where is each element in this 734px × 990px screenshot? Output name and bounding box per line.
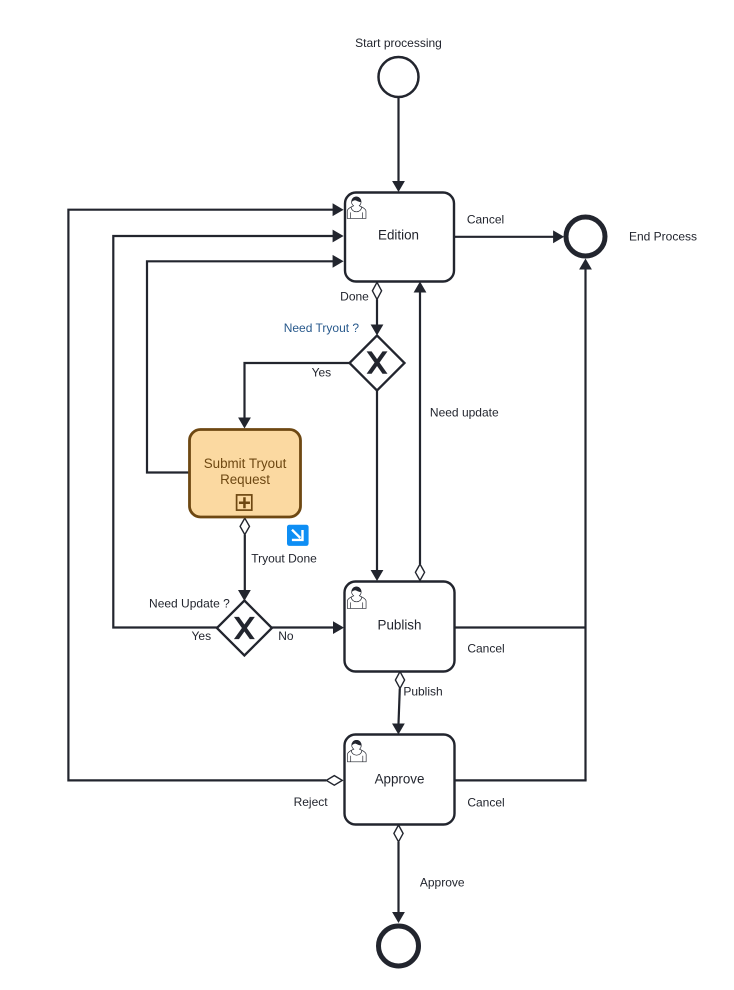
svg-text:Need Update ?: Need Update ? [149,596,230,610]
svg-text:Approve: Approve [375,772,425,787]
svg-text:Reject: Reject [294,795,329,809]
svg-text:Start processing: Start processing [355,36,442,50]
svg-text:Publish: Publish [378,618,422,633]
svg-text:Cancel: Cancel [467,795,504,809]
svg-text:No: No [278,629,294,643]
svg-text:Cancel: Cancel [467,213,504,227]
svg-text:Need Tryout ?: Need Tryout ? [284,321,360,335]
svg-text:Yes: Yes [192,629,212,643]
svg-text:Done: Done [340,289,369,303]
svg-text:Publish: Publish [403,685,442,699]
svg-text:Submit Tryout: Submit Tryout [204,456,287,471]
svg-text:Request: Request [220,472,270,487]
svg-text:Edition: Edition [378,228,419,243]
svg-text:Yes: Yes [312,366,332,380]
svg-text:Tryout Done: Tryout Done [251,552,317,566]
svg-text:Approve: Approve [420,875,465,889]
svg-text:End Process: End Process [629,230,697,244]
svg-text:Cancel: Cancel [467,641,504,655]
svg-text:Need update: Need update [430,405,499,419]
